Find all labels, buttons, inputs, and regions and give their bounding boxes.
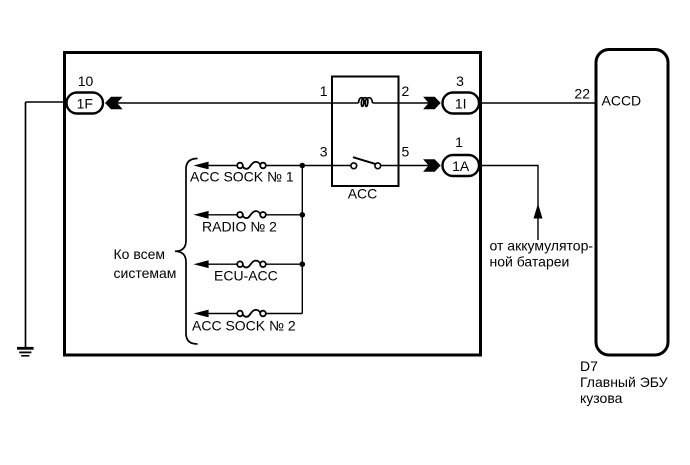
node: bus junction 1 [300, 163, 306, 169]
svg-text:кузова: кузова [580, 390, 623, 406]
junction block box [65, 53, 481, 356]
branch 1 arrowhead [194, 162, 209, 170]
svg-text:1: 1 [320, 83, 328, 99]
svg-text:2: 2 [402, 83, 410, 99]
wire branch 4 right [266, 313, 303, 315]
ground [17, 347, 34, 357]
node: bus junction 3 [300, 261, 306, 267]
wire: 1F to relay pin 1 [116, 102, 359, 104]
branch 4 arrowhead [194, 310, 209, 318]
relay coil [359, 98, 373, 107]
relay switch contact right [375, 163, 381, 169]
svg-text:ACCD: ACCD [602, 93, 642, 109]
bus wire vertical [301, 166, 303, 314]
relay box ACC [332, 77, 399, 187]
connector 1A [443, 155, 480, 176]
wire branch 2 right [266, 214, 303, 216]
svg-text:5: 5 [402, 144, 410, 160]
wire: 1A to battery feed [481, 166, 539, 241]
connector 1F [67, 93, 104, 114]
battery feed arrowhead [534, 204, 543, 219]
svg-text:ACC SOCK № 2: ACC SOCK № 2 [192, 318, 296, 334]
relay switch blade [353, 157, 375, 164]
body ECU box D7 [596, 50, 668, 356]
relay switch contact left [351, 163, 357, 169]
wire branch 4 left [208, 313, 237, 315]
svg-text:1I: 1I [455, 95, 467, 111]
wire branch 3 right [266, 263, 303, 265]
branch 2 arrowhead [194, 211, 209, 219]
wire: vertical to ground [25, 102, 27, 347]
svg-text:1F: 1F [77, 95, 93, 111]
wire branch 3 left [208, 263, 237, 265]
brace [175, 159, 198, 345]
svg-text:системам: системам [114, 265, 177, 281]
svg-text:ACC SOCK № 1: ACC SOCK № 1 [190, 169, 294, 185]
svg-text:Ко всем: Ко всем [114, 246, 166, 262]
svg-text:D7: D7 [580, 358, 598, 374]
svg-text:3: 3 [320, 144, 328, 160]
branch 3 arrowhead [194, 260, 209, 268]
wire branch 1 left [208, 165, 237, 167]
arrowhead into 1I [423, 97, 441, 109]
svg-text:22: 22 [574, 86, 590, 102]
fuse ACC SOCK 1 [237, 162, 266, 169]
fuse ECU-ACC [237, 261, 266, 268]
fuse ACC SOCK 2 [237, 310, 266, 317]
node: bus junction 2 [300, 212, 306, 218]
svg-text:RADIO № 2: RADIO № 2 [202, 219, 277, 235]
svg-text:от аккумулятор-: от аккумулятор- [490, 238, 594, 254]
wire relay switch left [332, 165, 351, 167]
svg-text:ECU-ACC: ECU-ACC [214, 268, 278, 284]
svg-text:1A: 1A [452, 158, 470, 174]
svg-text:ACC: ACC [348, 186, 378, 202]
svg-text:10: 10 [78, 73, 94, 89]
wire: relay pin 2 to 1I [373, 102, 431, 104]
svg-text:1: 1 [455, 134, 463, 150]
wire branch 1 to relay pin 3 [266, 165, 332, 167]
wire: 1I to ECU pin 22 [481, 102, 597, 104]
svg-text:Главный ЭБУ: Главный ЭБУ [580, 374, 668, 390]
wire: relay pin 5 to 1A [381, 165, 430, 167]
fuse RADIO 2 [237, 211, 266, 218]
connector 1I [443, 93, 480, 114]
wire branch 2 left [208, 214, 237, 216]
wire: ground stub left of 1F [26, 101, 67, 103]
arrowhead into 1F [105, 97, 123, 109]
svg-text:ной батареи: ной батареи [490, 254, 570, 270]
arrowhead into 1A [423, 159, 441, 171]
svg-text:3: 3 [456, 73, 464, 89]
